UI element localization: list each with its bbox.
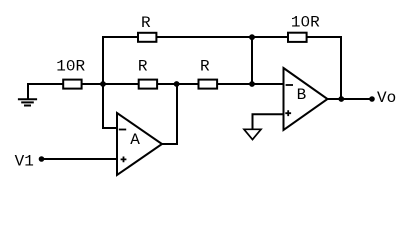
node at 103,84: [100, 81, 106, 87]
svg-text:10R: 10R: [56, 57, 85, 75]
op-amp A: [117, 113, 162, 175]
node at 341,99: [338, 96, 344, 102]
terminal V1: [39, 156, 45, 162]
resistor R middle: [139, 80, 157, 89]
svg-text:A: A: [130, 131, 140, 149]
wire node tap down from top run to middle row: [251, 37, 253, 84]
svg-text:R: R: [141, 14, 151, 32]
resistor 10R left: [63, 80, 81, 89]
node at 176.6,84: [174, 81, 180, 87]
wire top feedback run with A inverting input stub: [103, 37, 341, 128]
resistor 10R top: [288, 33, 307, 42]
svg-text:R: R: [200, 57, 210, 75]
node at 252,84: [249, 81, 255, 87]
wire V1 to A non-inverting input: [42, 158, 118, 160]
wire A output up to node: [162, 84, 177, 144]
resistor R top: [138, 33, 156, 42]
svg-text:10R: 10R: [291, 14, 320, 32]
terminal Vo: [369, 96, 375, 102]
op-amp B: [284, 68, 328, 130]
node at 252,37: [249, 34, 255, 40]
wire B output to Vo: [328, 98, 373, 100]
resistor R second: [199, 80, 218, 89]
svg-text:B: B: [297, 86, 307, 104]
ground right: [244, 129, 261, 139]
wire middle row from ground to op-amp B inverting input: [28, 84, 284, 99]
svg-text:R: R: [138, 57, 148, 75]
svg-text:Vo: Vo: [377, 89, 396, 107]
svg-text:V1: V1: [15, 152, 34, 170]
wire B non-inverting input to ground: [253, 114, 284, 129]
ground left: [18, 99, 37, 105]
